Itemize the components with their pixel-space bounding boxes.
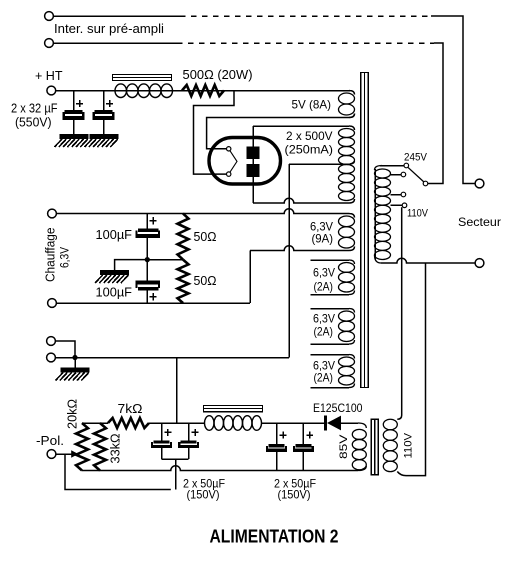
label 33kΩ	[109, 434, 123, 464]
wire bias top rail mid	[149, 422, 204, 424]
label + HT	[35, 69, 63, 83]
wire switch line 1 to Secteur top	[431, 16, 475, 184]
capacitor C8 50uF lead	[302, 423, 304, 444]
svg-text:-Pol.: -Pol.	[36, 434, 64, 448]
svg-text:33kΩ: 33kΩ	[109, 434, 123, 464]
resistor R3 50ohm	[178, 260, 189, 303]
capacitor C3 100uF plates	[136, 229, 161, 239]
terminal, switch line 2	[45, 39, 54, 48]
label 6,3V chauffage	[58, 247, 72, 268]
label Inter. sur pré-ampli	[54, 22, 164, 36]
tube filament wires	[229, 149, 237, 174]
svg-text:(150V): (150V)	[187, 488, 220, 502]
potentiometer wiper arrow	[71, 450, 78, 457]
svg-text:E125C100: E125C100	[313, 401, 363, 415]
tap 245V	[404, 163, 409, 168]
svg-text:2 x 500V: 2 x 500V	[286, 129, 333, 143]
wire chauffage top to 9A winding (hump over center-tap drop)	[56, 209, 354, 218]
label (2A) 2	[314, 325, 334, 339]
wire C5 C6 join bar	[162, 458, 189, 460]
wire 110V tap drop to T2 primary	[397, 207, 401, 419]
T1 primary winding loops	[375, 166, 391, 264]
wire C5C6 stem to -Pol line	[175, 459, 177, 490]
svg-text:(2A): (2A)	[314, 325, 334, 339]
wire Secteur bottom drop to T2 primary return	[397, 263, 425, 476]
terminal, switch line 1 (Inter. sur pré-ampli)	[45, 12, 54, 21]
label 100µF bottom	[96, 286, 133, 300]
capacitor C2 32uF lead	[103, 91, 105, 111]
label 6,3V 2A-2	[313, 312, 335, 326]
svg-text:Inter. sur pré-ampli: Inter. sur pré-ampli	[54, 22, 164, 36]
label 2 x 50µF right	[274, 477, 316, 491]
svg-text:110V: 110V	[407, 208, 429, 220]
label (150V) right	[278, 488, 311, 502]
capacitor C1 plus	[76, 100, 83, 107]
svg-text:50Ω: 50Ω	[194, 274, 217, 288]
terminal +HT	[47, 86, 56, 95]
svg-text:20kΩ: 20kΩ	[66, 399, 80, 429]
transformer T2 core	[371, 419, 378, 475]
wire diode to T2	[341, 423, 366, 428]
capacitor C6 lower lead	[188, 448, 190, 459]
label 110V secondary	[403, 432, 415, 458]
label 20kΩ	[66, 399, 80, 429]
wire HV center tap	[289, 161, 355, 164]
inductor L2 coil loops	[205, 416, 262, 431]
label 7kΩ	[118, 402, 143, 416]
svg-text:110V: 110V	[403, 432, 415, 458]
capacitor C6 plates	[178, 440, 199, 448]
label 50Ω bottom	[194, 274, 217, 288]
T2 winding 85V loops	[352, 429, 366, 469]
tube filament pin 1	[227, 147, 231, 151]
svg-text:2 x 32 µF: 2 x 32 µF	[11, 102, 58, 116]
wire primary top lead to 245V tap	[380, 165, 404, 167]
label (150V) left	[187, 488, 220, 502]
wire anode top to HV winding top	[253, 126, 355, 130]
svg-text:7kΩ: 7kΩ	[118, 402, 143, 416]
wire switch line 2 solid	[53, 42, 177, 44]
svg-text:(550V): (550V)	[15, 116, 52, 130]
ground below C2	[85, 134, 119, 147]
tap 2	[401, 172, 406, 177]
svg-text:(2A): (2A)	[314, 280, 334, 294]
label 6,3V 2A-1	[313, 266, 335, 280]
node chauffage mid	[145, 257, 150, 262]
capacitor C3 plus	[149, 217, 156, 224]
terminal Secteur top	[475, 179, 484, 188]
wire +HT rail	[56, 91, 355, 95]
label 6,3V (9A)	[310, 220, 333, 234]
diode D1 cathode bar	[324, 416, 327, 431]
capacitor C6 50uF lead	[188, 423, 190, 440]
label Secteur	[458, 215, 501, 229]
label 500Ω (20W)	[183, 68, 253, 82]
svg-text:+ HT: + HT	[35, 69, 63, 83]
wire 5V winding bottom lead	[207, 114, 355, 149]
wire ground bus drop to bias section	[176, 358, 178, 424]
svg-text:500Ω (20W): 500Ω (20W)	[183, 68, 253, 82]
tube filament pin 2	[227, 172, 231, 176]
capacitor C7 plates	[266, 444, 287, 452]
svg-text:100µF: 100µF	[96, 286, 133, 300]
inductor L1 core bar	[113, 75, 172, 81]
capacitor C8 plates	[293, 444, 314, 452]
capacitor C5 plates	[151, 440, 172, 448]
T1 winding 2x500V loops	[339, 126, 355, 203]
tap 110V lead	[391, 204, 403, 206]
tube anode plate 1	[247, 147, 260, 160]
label 2 x 500V	[286, 129, 333, 143]
capacitor C8 plus	[306, 432, 313, 439]
capacitor C7 plus	[280, 432, 287, 439]
capacitor C4 leads	[146, 260, 148, 303]
label 5V (8A)	[292, 98, 332, 112]
svg-text:245V: 245V	[404, 152, 428, 164]
svg-text:100µF: 100µF	[96, 228, 133, 242]
terminal chauffage top	[48, 209, 57, 218]
capacitor C1 32uF lead	[73, 91, 75, 111]
label 245V	[404, 152, 428, 164]
selector switch pivot	[423, 181, 428, 186]
node ground junction	[72, 355, 77, 360]
svg-text:6,3V: 6,3V	[313, 266, 335, 280]
capacitor C1 lower lead	[73, 120, 75, 134]
label (2A) 1	[314, 280, 334, 294]
T1 winding 6,3V 2A-2 loops	[311, 309, 355, 345]
ground chauffage	[95, 270, 129, 283]
selector switch blade	[408, 167, 424, 182]
diode D1 triangle	[327, 416, 341, 431]
T1 winding 6,3V 2A-1 loops	[311, 260, 355, 295]
capacitor C7 50uF lead	[276, 423, 278, 444]
tube anode plate 2	[247, 164, 260, 177]
capacitor C4 100uF plates (inverted)	[136, 281, 161, 291]
svg-text:(9A): (9A)	[312, 232, 334, 246]
wire switch line 2 to selector blade	[428, 43, 443, 184]
capacitor C6 plus	[192, 429, 199, 436]
label (9A)	[312, 232, 334, 246]
capacitor C3 lower lead	[146, 238, 148, 260]
terminal -Pol	[47, 450, 56, 459]
capacitor C4 plus	[149, 293, 156, 300]
wire aux terminal to ground node	[55, 341, 75, 358]
wire bias bottom rail (hump over C5C6 stem)	[82, 466, 366, 471]
capacitor C2 lower lead	[103, 120, 105, 134]
T1 winding 6,3V 9A loops	[339, 214, 355, 251]
wire 9A winding bottom to chauffage bottom	[250, 246, 355, 303]
tap 3	[401, 192, 406, 197]
capacitor C3 100uF lead	[146, 214, 148, 229]
svg-text:ALIMENTATION 2: ALIMENTATION 2	[210, 527, 339, 547]
label 100µF top	[96, 228, 133, 242]
wire switch line 1 solid	[53, 15, 180, 17]
svg-text:50Ω: 50Ω	[194, 230, 217, 244]
label (250mA)	[285, 143, 334, 157]
title ALIMENTATION 2	[210, 527, 339, 547]
svg-text:6,3V: 6,3V	[58, 247, 72, 268]
svg-text:6,3V: 6,3V	[313, 312, 335, 326]
label (550V)	[15, 116, 52, 130]
tap 3 lead	[391, 194, 402, 196]
wire mid node to ground	[115, 260, 148, 270]
resistor R5 33k	[94, 423, 106, 471]
terminal chauffage bottom	[48, 299, 57, 308]
svg-text:Secteur: Secteur	[458, 215, 501, 229]
wire primary bottom lead to Secteur bottom (hump over 110V drop)	[381, 258, 475, 263]
resistor R1 500ohm	[182, 85, 224, 96]
potentiometer R4 20k	[76, 423, 88, 471]
capacitor C2 32uF plates	[93, 110, 115, 120]
wire -Pol to wiper and bottom line	[56, 454, 171, 490]
capacitor C1 32uF plates	[63, 110, 85, 120]
svg-text:Chauffage: Chauffage	[44, 227, 58, 282]
tube anode stem	[252, 126, 254, 203]
capacitor C8 lower lead	[302, 452, 304, 471]
capacitor C7 lower lead	[276, 452, 278, 471]
wire switch line 1 dashed	[180, 15, 431, 17]
label 6,3V 2A-3	[313, 359, 335, 373]
capacitor C5 lower lead	[161, 448, 163, 459]
svg-text:85V: 85V	[338, 434, 350, 459]
wire switch line 2 dashed	[177, 42, 434, 44]
label 85V	[338, 434, 350, 459]
svg-text:5V (8A): 5V (8A)	[292, 98, 332, 112]
inductor L2 core bar	[204, 406, 263, 412]
label E125C100	[313, 401, 363, 415]
label 2 x 50µF left	[183, 477, 225, 491]
label 50Ω top	[194, 230, 217, 244]
label -Pol.	[36, 434, 64, 448]
svg-text:(250mA): (250mA)	[285, 143, 334, 157]
ground main	[56, 368, 90, 381]
wire bias rail choke to diode	[262, 422, 325, 424]
wire bias top rail left	[82, 422, 108, 424]
terminal ground	[47, 353, 56, 362]
tap 2 lead	[391, 174, 402, 176]
terminal aux	[47, 337, 56, 346]
T2 winding 110V loops	[383, 419, 397, 471]
T1 winding 6,3V 2A-3 loops	[311, 355, 355, 388]
svg-text:(150V): (150V)	[278, 488, 311, 502]
tap 110V	[402, 203, 407, 208]
inductor L1 coil loops	[115, 84, 173, 98]
capacitor C5 50uF lead	[161, 423, 163, 440]
wire chauffage bottom	[56, 302, 250, 304]
wire center tap drop to ground bus	[288, 164, 290, 358]
label Chauffage	[44, 227, 58, 282]
resistor R2 50ohm	[178, 214, 189, 260]
capacitor C2 plus	[106, 100, 113, 107]
resistor R6 7k	[108, 418, 149, 428]
capacitor C5 plus	[165, 429, 172, 436]
wire resistor output branch down	[194, 91, 235, 175]
svg-text:(2A): (2A)	[314, 371, 334, 385]
tube rectifier U1 envelope	[209, 138, 281, 185]
ground below C1	[55, 134, 89, 147]
T1 winding 5V loops	[339, 91, 355, 118]
label 2 x 32 µF	[11, 102, 58, 116]
label (2A) 3	[314, 371, 334, 385]
wire anode bottom to HV winding bottom (hump over center-tap drop)	[253, 198, 355, 203]
terminal Secteur bottom	[475, 259, 484, 268]
label 110V tap	[407, 208, 429, 220]
transformer T1 core	[361, 73, 368, 388]
wire ground stub	[74, 358, 76, 368]
wire ground bus	[55, 357, 289, 359]
wire mid node to 50ohm junction	[147, 259, 183, 261]
